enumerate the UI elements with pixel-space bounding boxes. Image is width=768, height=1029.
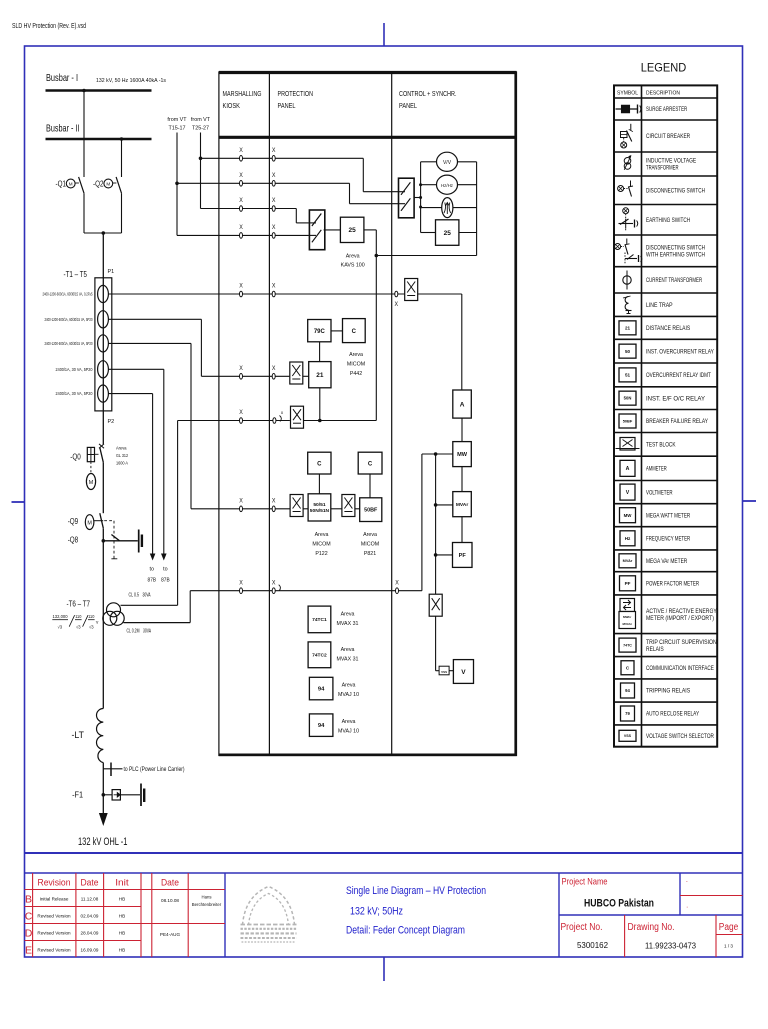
wire CT4 to 87B — [108, 368, 163, 370]
company logo watermark — [241, 887, 297, 943]
wire VT row D — [177, 234, 309, 236]
wire stub V/V — [421, 161, 437, 163]
svg-text:COMMUNICATION INTERFACE: COMMUNICATION INTERFACE — [646, 666, 714, 672]
svg-text:-Q1: -Q1 — [56, 180, 67, 189]
svg-text:C: C — [352, 329, 357, 335]
svg-text:CL 0.5: CL 0.5 — [129, 593, 140, 599]
svg-text:Areva: Areva — [341, 647, 355, 653]
svg-text:C: C — [368, 461, 373, 467]
svg-text:50N/51N: 50N/51N — [310, 508, 330, 514]
svg-text:T15-17: T15-17 — [168, 126, 185, 132]
voltmeter V/V — [437, 152, 458, 171]
svg-text:INST. E/F O/C RELAY: INST. E/F O/C RELAY — [646, 396, 705, 402]
svg-text:Date: Date — [81, 878, 99, 889]
svg-text:to: to — [163, 567, 168, 573]
wire VT1 voltage row — [178, 420, 290, 422]
voltmeter V — [453, 660, 473, 684]
svg-text:GL 312: GL 312 — [116, 453, 128, 459]
svg-text:A: A — [460, 401, 465, 408]
wire feeder LT-OHL — [102, 763, 104, 815]
svg-text:HB: HB — [119, 914, 125, 919]
svg-text:PANEL: PANEL — [399, 103, 417, 110]
svg-text:MVAr: MVAr — [456, 502, 469, 508]
centering mark bottom — [383, 957, 385, 981]
svg-text:DISTANCE RELAIS: DISTANCE RELAIS — [646, 326, 690, 332]
svg-text:X: X — [272, 147, 276, 154]
svg-text:CONTROL + SYNCHR.: CONTROL + SYNCHR. — [399, 91, 457, 98]
wire VT row B — [175, 182, 179, 186]
svg-text:21: 21 — [316, 372, 324, 379]
svg-text:FREQUENCY METER: FREQUENCY METER — [646, 536, 691, 542]
svg-text:X: X — [272, 365, 276, 372]
svg-text:87B: 87B — [148, 577, 157, 583]
svg-text:-Q0: -Q0 — [70, 453, 81, 462]
wire TB5 to 50BF — [355, 508, 360, 510]
svg-text:Date: Date — [161, 878, 179, 889]
wire CT2 to 21 — [108, 318, 201, 320]
svg-text:to: to — [150, 567, 155, 573]
svg-text:MVAhr: MVAhr — [622, 622, 632, 626]
svg-text:-Q9: -Q9 — [68, 517, 79, 526]
wire VT2 secondary — [124, 622, 191, 624]
svg-text:25: 25 — [444, 230, 452, 237]
svg-text:Revised Version: Revised Version — [37, 948, 71, 953]
auto reclose relay 79C — [308, 320, 331, 342]
test block TB2 — [290, 362, 303, 384]
svg-text:P1: P1 — [108, 269, 115, 275]
busbar I — [46, 89, 152, 92]
svg-text:Hz: Hz — [625, 536, 631, 541]
svg-text:Detail: Feder Concept Diagram: Detail: Feder Concept Diagram — [346, 925, 465, 937]
svg-text:2400-1200-600/1A, 60/30/15 VA,: 2400-1200-600/1A, 60/30/15 VA, 0.2Fs5 — [43, 292, 93, 297]
svg-text:5300162: 5300162 — [577, 941, 608, 950]
wire feeder upper — [102, 233, 104, 444]
wire feeder Q9-LT — [102, 528, 104, 708]
svg-text:08.10.08: 08.10.08 — [161, 898, 179, 903]
comm interface C3 — [358, 452, 382, 474]
centering mark left — [12, 501, 25, 503]
svg-text:√3: √3 — [89, 624, 94, 629]
svg-text:X: X — [272, 172, 276, 179]
svg-text:B: B — [25, 894, 32, 906]
wire 21 to VT row — [319, 388, 321, 421]
earth electrode F1 — [140, 784, 142, 807]
trip circuit supervision 74TC2 — [308, 642, 331, 668]
svg-text:MVAX 31: MVAX 31 — [337, 657, 359, 663]
svg-text:1 / 3: 1 / 3 — [724, 944, 733, 949]
centering mark right — [743, 500, 757, 502]
svg-text:30VA: 30VA — [143, 593, 151, 599]
wire CT5 to 87B — [108, 393, 152, 395]
frequency meter Hz/Hz — [437, 175, 458, 194]
svg-text:Initial Release: Initial Release — [40, 897, 69, 902]
svg-text:MVAX 31: MVAX 31 — [337, 621, 359, 627]
svg-text:·: · — [686, 904, 688, 911]
test block TB4 — [290, 495, 303, 517]
svg-text:DISCONNECTING SWITCH: DISCONNECTING SWITCH — [646, 246, 705, 252]
svg-text:79: 79 — [625, 711, 630, 716]
svg-text:METER (IMPORT / EXPORT): METER (IMPORT / EXPORT) — [646, 616, 714, 622]
wire feeder Q0-Q9 — [102, 462, 104, 513]
svg-text:CURRENT TRANSFORMER: CURRENT TRANSFORMER — [646, 278, 703, 284]
svg-text:√3: √3 — [76, 624, 81, 629]
svg-text:MEGA WATT METER: MEGA WATT METER — [646, 513, 691, 519]
drawing area bottom rule — [25, 852, 743, 854]
svg-text:110: 110 — [75, 614, 82, 619]
svg-text:AMMETER: AMMETER — [646, 467, 667, 473]
svg-text:PF: PF — [459, 553, 467, 559]
PLC coupling tap — [103, 768, 122, 770]
svg-text:MICOM: MICOM — [361, 542, 379, 548]
test block TB3 — [291, 406, 304, 428]
wire from VT T25-27 — [200, 133, 202, 209]
svg-text:INST. OVERCURRENT RELAY: INST. OVERCURRENT RELAY — [646, 349, 714, 355]
svg-text:-T6 – T7: -T6 – T7 — [67, 599, 91, 609]
svg-text:X: X — [239, 172, 243, 179]
svg-text:Areva: Areva — [315, 532, 329, 538]
svg-text:X: X — [239, 224, 243, 231]
node busbar II tap — [120, 137, 124, 141]
svg-text:MW: MW — [624, 513, 633, 518]
svg-text:to PLC (Power Line Carrier): to PLC (Power Line Carrier) — [124, 767, 185, 773]
wire stub Hz/Hz — [421, 184, 437, 186]
svg-text:C: C — [317, 461, 322, 467]
svg-text:SURGE ARRESTER: SURGE ARRESTER — [646, 107, 688, 113]
svg-text:X: X — [239, 409, 243, 416]
svg-text:TRIP CIRCUIT SUPERVISION: TRIP CIRCUIT SUPERVISION — [646, 640, 717, 646]
svg-text:V/V: V/V — [443, 160, 452, 166]
comm interface C2 — [308, 452, 331, 474]
svg-text:M: M — [87, 520, 92, 526]
svg-text:HUBCO Pakistan: HUBCO Pakistan — [584, 898, 654, 910]
svg-text:X: X — [395, 301, 399, 308]
wire selector to synch relay — [324, 229, 341, 231]
wire TB4 to 50/51 — [303, 508, 308, 510]
svg-text:2400/1A, 30 VA, 5P20: 2400/1A, 30 VA, 5P20 — [56, 391, 93, 396]
approval marks cell — [680, 895, 743, 897]
svg-text:02.04.09: 02.04.09 — [81, 914, 99, 919]
wire C3 to 50BF — [369, 474, 371, 498]
svg-text:Berchtenbreiter: Berchtenbreiter — [192, 902, 222, 907]
wire A to MW — [461, 418, 463, 442]
svg-text:74TC1: 74TC1 — [312, 617, 327, 623]
svg-text:-Q2: -Q2 — [93, 180, 104, 189]
wire MW to MVAr — [461, 467, 463, 492]
svg-text:1600 A: 1600 A — [116, 461, 129, 467]
svg-text:TEST BLOCK: TEST BLOCK — [646, 443, 676, 449]
wire MVAr to PF — [461, 517, 463, 543]
VT selector switch S1 — [309, 210, 324, 250]
test block TB5 — [342, 495, 355, 517]
node busbar I tap — [82, 89, 86, 93]
svg-text:P122: P122 — [315, 551, 327, 557]
wire 79C to C1 — [331, 330, 342, 332]
svg-text:Hz/Hz: Hz/Hz — [441, 183, 453, 188]
wire VT row A — [199, 157, 203, 161]
svg-text:87B: 87B — [161, 577, 170, 583]
wire stub synch relay 25 — [421, 232, 436, 234]
wire CT1 down to ammeter — [461, 294, 463, 390]
svg-text:Single Line Diagram – HV Prote: Single Line Diagram – HV Protection — [346, 885, 486, 897]
title block top rule — [25, 872, 743, 874]
svg-text:PF: PF — [625, 581, 631, 586]
wire 79C to 21 — [319, 342, 321, 362]
interlock linkage Q8 — [113, 521, 115, 559]
svg-text:P442: P442 — [350, 371, 362, 377]
tripping relay 94 (1) — [309, 677, 333, 700]
svg-text:X: X — [272, 197, 276, 204]
project row divider — [559, 914, 743, 916]
svg-text:50/51: 50/51 — [313, 502, 326, 508]
svg-text:RELAIS: RELAIS — [646, 647, 664, 653]
svg-text:VOLTMETER: VOLTMETER — [646, 490, 673, 496]
svg-text:MICOM: MICOM — [312, 542, 330, 548]
svg-text:MARSHALLING: MARSHALLING — [223, 91, 262, 98]
svg-text:OVERCURRENT RELAY IDMT: OVERCURRENT RELAY IDMT — [646, 373, 711, 379]
svg-text:M: M — [89, 480, 94, 486]
svg-text:Areva: Areva — [342, 683, 356, 689]
svg-text:X: X — [272, 224, 276, 231]
svg-text:Page: Page — [719, 922, 739, 933]
svg-text:M: M — [69, 182, 73, 187]
svg-text:74TC2: 74TC2 — [312, 653, 327, 659]
svg-text:MWhr: MWhr — [623, 615, 632, 619]
voltage switch selector VSS — [439, 666, 449, 675]
distance relay 21 — [309, 362, 331, 388]
svg-text:MICOM: MICOM — [347, 362, 365, 368]
svg-text:94: 94 — [318, 687, 325, 693]
svg-text:74TC: 74TC — [623, 643, 632, 647]
busbar II — [46, 138, 152, 141]
overcurrent relay 50/51 50N/51N — [308, 494, 331, 521]
svg-text:D: D — [25, 928, 33, 940]
svg-text:132,000: 132,000 — [53, 614, 69, 619]
svg-text:-T1 – T5: -T1 – T5 — [64, 269, 88, 279]
svg-text:X: X — [272, 283, 276, 290]
svg-text:VSS: VSS — [624, 734, 632, 738]
svg-text:CL 0.2M: CL 0.2M — [127, 629, 140, 635]
svg-text:SLD HV Protection (Rev. E).vsd: SLD HV Protection (Rev. E).vsd — [12, 21, 86, 30]
svg-text:Areva: Areva — [346, 254, 360, 260]
svg-text:Revision: Revision — [38, 878, 71, 889]
wire VT2 metering row — [190, 590, 422, 592]
comm interface C1 — [343, 319, 366, 343]
svg-text:BREAKER FAILURE RELAY: BREAKER FAILURE RELAY — [646, 419, 708, 425]
project name cell divider — [679, 873, 681, 915]
svg-text:P821: P821 — [364, 551, 376, 557]
svg-text:Y: Y — [96, 620, 99, 625]
svg-text:PANEL: PANEL — [278, 103, 296, 110]
svg-text:50: 50 — [625, 349, 631, 354]
tripping relay 94 (2) — [309, 714, 333, 737]
svg-text:Revised Version: Revised Version — [37, 931, 71, 936]
page cell divider — [715, 915, 717, 957]
svg-text:√3: √3 — [58, 624, 63, 629]
svg-text:DISCONNECTING SWITCH: DISCONNECTING SWITCH — [646, 188, 705, 194]
svg-text:MVAr: MVAr — [623, 559, 633, 563]
terminal VT1 panel — [273, 418, 276, 424]
svg-text:Busbar - I: Busbar - I — [46, 73, 78, 84]
svg-text:Drawing No.: Drawing No. — [628, 922, 675, 933]
svg-text:2400-1200-600/1A, 60/30/15 VA,: 2400-1200-600/1A, 60/30/15 VA, 5P20 — [45, 341, 93, 346]
revision table red grid — [32, 873, 34, 957]
test block TB1 — [405, 279, 418, 301]
feeder arrow to OHL — [99, 813, 108, 826]
svg-text:E: E — [25, 945, 32, 957]
wire voltage bus right — [458, 161, 477, 163]
svg-text:2400-1200-600/1A, 60/30/15 VA,: 2400-1200-600/1A, 60/30/15 VA, 5P20 — [45, 317, 93, 322]
svg-text:C: C — [25, 911, 33, 923]
synch relay 25 (control) — [436, 220, 459, 246]
panel divider protection/control — [391, 72, 393, 755]
svg-text:132 kV; 50Hz: 132 kV; 50Hz — [350, 906, 403, 918]
svg-text:Areva: Areva — [363, 532, 377, 538]
svg-text:Init: Init — [115, 878, 129, 889]
svg-text:79C: 79C — [314, 329, 326, 335]
wire selector output — [414, 197, 421, 199]
panel divider marshalling/protection — [268, 72, 270, 755]
svg-text:POWER FACTOR METER: POWER FACTOR METER — [646, 581, 700, 587]
svg-text:132 kV, 50 Hz 1600A 40kA -1: 132 kV, 50 Hz 1600A 40kA -1s — [96, 78, 166, 84]
wire from VT T15-17 — [176, 133, 178, 236]
wire VSS to V — [449, 670, 453, 672]
svg-text:11.99233-0473: 11.99233-0473 — [645, 942, 696, 951]
synch check relay 25 (KAVS) — [340, 217, 364, 242]
megawatt meter MW — [453, 442, 472, 467]
power factor meter PF — [453, 543, 473, 568]
svg-text:EARTHING SWITCH: EARTHING SWITCH — [646, 218, 690, 224]
svg-text:ACTIVE / REACTIVE ENERGY: ACTIVE / REACTIVE ENERGY — [646, 609, 717, 615]
svg-text:Areva: Areva — [341, 612, 355, 618]
wire disconnector join — [84, 232, 122, 234]
svg-text:HB: HB — [119, 897, 125, 902]
svg-text:Areva: Areva — [116, 446, 127, 452]
svg-text:LINE TRAP: LINE TRAP — [646, 303, 673, 309]
svg-text:CIRCUIT BREAKER: CIRCUIT BREAKER — [646, 134, 691, 140]
svg-text:V: V — [626, 490, 630, 496]
svg-text:PROTECTION: PROTECTION — [278, 91, 314, 98]
synchroscope — [442, 198, 453, 218]
svg-text:50BF: 50BF — [623, 418, 633, 423]
svg-text:Project No.: Project No. — [561, 922, 603, 933]
svg-text:VOLTAGE SWITCH SELECTOR: VOLTAGE SWITCH SELECTOR — [646, 734, 714, 740]
synchronising selector switch S2 — [399, 178, 415, 218]
svg-text:X: X — [395, 579, 399, 586]
svg-text:30VA: 30VA — [143, 629, 151, 635]
svg-text:LEGEND: LEGEND — [641, 61, 687, 75]
svg-text:M: M — [106, 182, 110, 187]
svg-text:Areva: Areva — [342, 719, 356, 725]
svg-text:X: X — [239, 579, 243, 586]
panel enclosure — [219, 72, 517, 756]
svg-text:INDUCTIVE VOLTAGE: INDUCTIVE VOLTAGE — [646, 159, 696, 165]
wire bus to KAVS drop — [376, 255, 476, 257]
svg-text:A: A — [626, 466, 630, 472]
svg-text:X: X — [239, 147, 243, 154]
svg-text:2400/1A, 30 VA, 5P20: 2400/1A, 30 VA, 5P20 — [56, 367, 93, 372]
svg-text:X: X — [239, 365, 243, 372]
wire VT1 secondary — [121, 604, 178, 606]
svg-text:Revised Version: Revised Version — [37, 914, 71, 919]
svg-text:KIOSK: KIOSK — [223, 103, 241, 110]
svg-text:WITH EARTHING SWITCH: WITH EARTHING SWITCH — [646, 253, 705, 259]
svg-text:Areva: Areva — [349, 352, 363, 358]
svg-text:MVAJ 10: MVAJ 10 — [338, 729, 359, 735]
svg-text:MW: MW — [457, 452, 468, 458]
node feeder junction — [102, 231, 106, 235]
svg-text:X: X — [239, 498, 243, 505]
svg-text:HB: HB — [119, 931, 125, 936]
svg-text:110: 110 — [88, 614, 95, 619]
earth electrode Q8 — [138, 530, 140, 553]
disconnector -Q1 — [83, 91, 85, 178]
svg-text:Project Name: Project Name — [562, 876, 608, 887]
breaker failure relay 50BF — [360, 498, 382, 522]
svg-text:V: V — [461, 669, 466, 676]
svg-text:PE4-AUG: PE4-AUG — [160, 932, 181, 937]
svg-text:21: 21 — [625, 326, 631, 331]
svg-text:11.12.08: 11.12.08 — [81, 897, 99, 902]
test block TB6 — [429, 594, 442, 616]
svg-text:X: X — [272, 579, 276, 586]
svg-text:94: 94 — [318, 723, 325, 729]
title block revision divider — [224, 873, 226, 957]
svg-text:P2: P2 — [108, 419, 115, 425]
svg-text:94: 94 — [625, 688, 630, 693]
wire meter feed bus — [435, 454, 437, 671]
title block project divider — [558, 873, 560, 957]
svg-text:51: 51 — [625, 373, 631, 378]
svg-text:132 kV OHL -1: 132 kV OHL -1 — [78, 836, 128, 848]
svg-text:TRANSFORMER: TRANSFORMER — [646, 166, 679, 172]
svg-text:KAVS 100: KAVS 100 — [341, 263, 365, 269]
megavar meter MVAr — [453, 492, 472, 517]
drawing number divider — [624, 915, 626, 957]
svg-text:X: X — [239, 197, 243, 204]
wire CT3 to 50/51 — [108, 342, 191, 344]
svg-text:25: 25 — [349, 227, 357, 234]
svg-text:MVAJ 10: MVAJ 10 — [338, 692, 359, 698]
legend table frame — [614, 85, 717, 746]
wire KAVS output — [364, 229, 376, 231]
svg-text:AUTO RECLOSE RELAY: AUTO RECLOSE RELAY — [646, 712, 699, 718]
wire 50/51 to TB5 — [331, 508, 342, 510]
breaker motor M — [90, 462, 92, 474]
svg-text:X: X — [272, 498, 276, 505]
ammeter A — [453, 390, 472, 418]
wire voltage bus left — [420, 162, 422, 233]
svg-text:TRIPPING RELAIS: TRIPPING RELAIS — [646, 689, 690, 695]
svg-text:from VT: from VT — [167, 117, 187, 123]
trip circuit supervision 74TC1 — [308, 606, 331, 633]
svg-text:from VT: from VT — [191, 117, 211, 123]
svg-text:-F1: -F1 — [72, 790, 83, 800]
svg-text:50N: 50N — [624, 396, 632, 401]
svg-text:16.09.09: 16.09.09 — [81, 948, 99, 953]
wire CT1 to control — [108, 293, 461, 295]
svg-text:HB: HB — [119, 948, 125, 953]
wire C2 to 50/51 — [318, 474, 320, 494]
svg-text:-Q8: -Q8 — [68, 536, 79, 545]
svg-text:-LT: -LT — [72, 730, 85, 740]
svg-text:SYMBOL: SYMBOL — [617, 91, 639, 97]
centering mark top — [383, 23, 385, 46]
svg-text:28.04.09: 28.04.09 — [81, 931, 99, 936]
wire to voltmeter — [436, 670, 440, 672]
svg-text:VSS: VSS — [441, 670, 447, 674]
svg-text:T25-27: T25-27 — [192, 126, 209, 132]
wire VT row C — [201, 208, 297, 210]
